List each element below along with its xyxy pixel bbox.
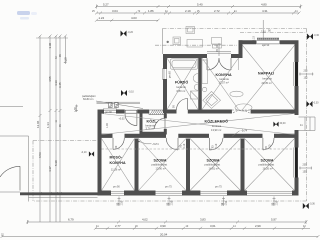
wall: szoba2|szoba3 <box>241 139 245 191</box>
bath door arc <box>177 99 188 110</box>
carport outline <box>0 136 29 202</box>
wall: step kitchen->living <box>239 40 243 58</box>
svg-text:3,61: 3,61 <box>210 224 216 228</box>
blue stamp smudge top-left <box>17 11 37 20</box>
svg-text:5.40: 5.40 <box>197 3 203 7</box>
svg-text:kerámia: kerámia <box>177 85 187 89</box>
washing machine <box>191 91 199 99</box>
porch steps <box>97 102 141 104</box>
szoba3 door leaf+arc <box>262 138 264 150</box>
svg-text:2.10: 2.10 <box>261 31 266 34</box>
kitchen counter <box>202 60 208 84</box>
living door centerline <box>262 20 264 40</box>
svg-text:6.53: 6.53 <box>38 152 42 158</box>
svg-text:205: 205 <box>304 69 309 72</box>
back door steps right <box>299 117 316 131</box>
elevation marker -0.30 top right <box>307 34 320 40</box>
svg-text:kerámia: kerámia <box>212 124 222 128</box>
svg-text:-0,10: -0,10 <box>128 90 134 93</box>
svg-text:pm 60: pm 60 <box>169 71 172 78</box>
left vertical dimension lines <box>36 35 68 223</box>
svg-text:4,02: 4,02 <box>142 218 148 222</box>
carport gate leaf <box>19 166 21 190</box>
wall: kozl right stubs <box>164 113 167 118</box>
kitchen table oval <box>230 91 243 97</box>
szoba3 window (dark) <box>295 148 298 178</box>
svg-text:3,76 m²: 3,76 m² <box>146 127 155 131</box>
svg-text:MOSÓ-: MOSÓ- <box>110 155 123 160</box>
svg-text:2,99: 2,99 <box>255 224 261 228</box>
svg-text:4.03: 4.03 <box>131 16 137 20</box>
svg-text:12.06: 12.06 <box>36 120 40 128</box>
svg-text:13,90 m²: 13,90 m² <box>211 128 221 132</box>
svg-text:KONYHA: KONYHA <box>216 73 232 77</box>
svg-text:2,77: 2,77 <box>115 224 121 228</box>
wall: house left <box>98 110 102 196</box>
svg-text:5,97: 5,97 <box>271 218 277 222</box>
svg-text:padlóburkolat: padlóburkolat <box>259 163 275 167</box>
svg-text:-0,10: -0,10 <box>81 151 87 154</box>
svg-text:6,80 m²: 6,80 m² <box>177 89 186 93</box>
window sill dims bottom <box>118 197 276 207</box>
wall: living top <box>239 40 299 44</box>
svg-text:KONYHA: KONYHA <box>110 161 126 165</box>
svg-text:~5x74: ~5x74 <box>241 129 248 132</box>
svg-text:SZOBA: SZOBA <box>261 159 274 163</box>
carport gate arc <box>0 166 20 177</box>
szoba2 door leaf+arc <box>208 138 210 150</box>
wall note leader szoba1 <box>138 141 140 143</box>
svg-text:4.55: 4.55 <box>48 76 52 82</box>
svg-text:12,57 m²: 12,57 m² <box>219 81 229 85</box>
svg-text:-0,36: -0,36 <box>309 203 315 206</box>
kozl door leaf+arc <box>164 118 166 129</box>
svg-text:-0,30: -0,30 <box>314 34 320 37</box>
french door to terrace <box>206 58 208 70</box>
wall: right <box>295 42 299 195</box>
elevation marker +-0.00 corridor <box>273 122 286 127</box>
bottom window szoba3 <box>246 191 293 195</box>
wall: bath left <box>163 54 167 113</box>
bottom window szoba2 <box>199 191 228 195</box>
svg-text:1.50: 1.50 <box>171 200 174 205</box>
svg-text:205: 205 <box>303 163 308 166</box>
svg-text:ajtó 90: ajtó 90 <box>262 44 270 47</box>
kitchen arch (dashed opening) <box>232 110 251 113</box>
wall: bath/kitchen top <box>163 54 241 58</box>
svg-text:+0,02: +0,02 <box>119 117 126 120</box>
fence line top-left <box>0 106 23 108</box>
svg-text:3.45: 3.45 <box>58 82 62 88</box>
svg-text:2.19: 2.19 <box>185 9 191 13</box>
porch posts <box>109 103 113 108</box>
svg-text:4.80: 4.80 <box>261 3 267 7</box>
elevation marker left wall <box>81 151 94 156</box>
porch corner dim ticks <box>75 105 78 113</box>
front window pm90 <box>103 109 117 113</box>
terrace step at french door <box>207 52 231 54</box>
svg-text:pm 90: pm 90 <box>113 186 120 189</box>
szoba3 window dim <box>299 167 312 170</box>
living top door leaf + header <box>257 41 280 44</box>
wall: moso|szoba1 <box>135 139 139 191</box>
svg-text:13,90 m²: 13,90 m² <box>156 166 166 170</box>
svg-text:155: 155 <box>303 171 308 174</box>
svg-text:FÜRDŐ: FÜRDŐ <box>175 80 188 85</box>
terrace left edge <box>162 29 164 55</box>
wall: front (left section top) <box>98 110 150 114</box>
svg-text:-0,30: -0,30 <box>313 101 319 104</box>
wall: bath|kitchen <box>198 58 202 110</box>
bath window pm60 <box>163 68 167 80</box>
bottom window szoba1 <box>155 191 184 195</box>
svg-text:3.04: 3.04 <box>112 9 118 13</box>
carport gate sill <box>0 191 20 193</box>
entry door arc <box>125 114 137 126</box>
svg-text:KÖZLEKEDŐ: KÖZLEKEDŐ <box>205 119 229 124</box>
wall: kozl left <box>140 114 143 135</box>
living window (dark) <box>295 62 298 86</box>
elevation marker -0.20 <box>121 31 134 37</box>
svg-text:4.17: 4.17 <box>48 166 52 172</box>
svg-text:kerámia: kerámia <box>263 77 273 81</box>
svg-text:-0,20: -0,20 <box>128 31 134 34</box>
svg-text:1.50: 1.50 <box>225 200 228 205</box>
wall note leader szoba3 <box>232 135 234 137</box>
wall: corridor top <box>167 110 295 114</box>
svg-text:2.10: 2.10 <box>215 143 218 148</box>
left dim labels (rotated) <box>36 42 67 172</box>
top dimension line row3 <box>95 19 160 22</box>
attic hatch (hatched box in wall) <box>149 110 166 115</box>
svg-text:1.86: 1.86 <box>148 9 154 13</box>
svg-text:SZOBA: SZOBA <box>154 159 167 163</box>
svg-text:155: 155 <box>304 77 309 80</box>
svg-text:6,79: 6,79 <box>68 218 74 222</box>
washbasin <box>193 74 198 83</box>
living window dim <box>299 73 313 76</box>
bottom dimension row A <box>26 220 308 224</box>
wall: szoba1|szoba2 <box>186 139 190 191</box>
svg-text:pm 75: pm 75 <box>165 185 172 188</box>
room diagonals <box>102 45 295 190</box>
svg-text:1.10: 1.10 <box>63 57 67 63</box>
svg-text:kerámia: kerámia <box>220 77 230 81</box>
svg-text:11,36 m²: 11,36 m² <box>111 168 121 172</box>
svg-text:3,83: 3,83 <box>200 218 206 222</box>
svg-text:60x60 cm: 60x60 cm <box>83 98 93 101</box>
svg-text:20,04: 20,04 <box>160 232 168 236</box>
mosokonyha door leaf+arc <box>112 138 114 150</box>
elevation marker -0.36 bottom right <box>303 203 316 209</box>
wall: corridor bottom <box>100 134 295 138</box>
bottom window mosokonyha <box>110 191 125 195</box>
svg-text:padlóburkolat: padlóburkolat <box>205 163 221 167</box>
bottom dimension row C <box>1 235 320 238</box>
terrace furniture <box>173 27 222 49</box>
svg-text:2.72: 2.72 <box>214 9 220 13</box>
svg-text:2.10: 2.10 <box>253 36 256 41</box>
note leader <box>96 101 143 109</box>
svg-text:14,81 m²: 14,81 m² <box>209 166 219 170</box>
wc <box>194 84 198 90</box>
bathtub <box>171 59 198 69</box>
svg-text:20,35 m²: 20,35 m² <box>262 81 272 85</box>
svg-text:2.10: 2.10 <box>183 143 186 148</box>
carport back wall <box>20 192 98 195</box>
roof eave dash-dot outline <box>33 29 307 202</box>
svg-text:1.00: 1.00 <box>106 123 109 128</box>
svg-text:1.30: 1.30 <box>48 42 52 48</box>
living oval rug <box>235 104 252 111</box>
svg-text:5.30: 5.30 <box>54 160 58 166</box>
svg-text:1.50: 1.50 <box>276 200 279 205</box>
svg-text:3,90: 3,90 <box>160 224 166 228</box>
svg-text:4.31: 4.31 <box>262 9 268 13</box>
svg-text:KÖZL.: KÖZL. <box>147 119 158 124</box>
entry door leaf <box>125 110 137 113</box>
svg-text:5.27: 5.27 <box>103 3 109 7</box>
wall: bottom <box>98 191 299 196</box>
bottom dimension row B <box>94 227 310 230</box>
section dashed line through rooms <box>102 148 295 150</box>
wall: kozl bottom <box>140 132 166 135</box>
elevation marker -0.30 right <box>307 101 320 107</box>
svg-text:~5x74: ~5x74 <box>152 143 159 146</box>
svg-text:NAPPALI: NAPPALI <box>258 72 274 76</box>
svg-text:1.24: 1.24 <box>99 16 105 20</box>
elevation marker -0.10 porch <box>121 90 134 96</box>
svg-text:1.34: 1.34 <box>46 122 50 128</box>
svg-text:2.10: 2.10 <box>268 144 271 149</box>
svg-text:16,26 m²: 16,26 m² <box>263 166 273 170</box>
svg-text:SZOBA: SZOBA <box>207 159 220 163</box>
svg-text:±0,00: ±0,00 <box>280 122 287 125</box>
svg-text:pm 75: pm 75 <box>215 185 222 188</box>
svg-text:padlóburkolat: padlóburkolat <box>152 163 168 167</box>
top dimension line row2 <box>95 12 301 15</box>
kitchen island (diamond) <box>203 91 221 108</box>
top dimension line row1 <box>95 5 302 9</box>
szoba1 door leaf+arc <box>177 138 179 150</box>
svg-text:1.38: 1.38 <box>74 107 77 112</box>
svg-text:1.50: 1.50 <box>121 200 124 205</box>
